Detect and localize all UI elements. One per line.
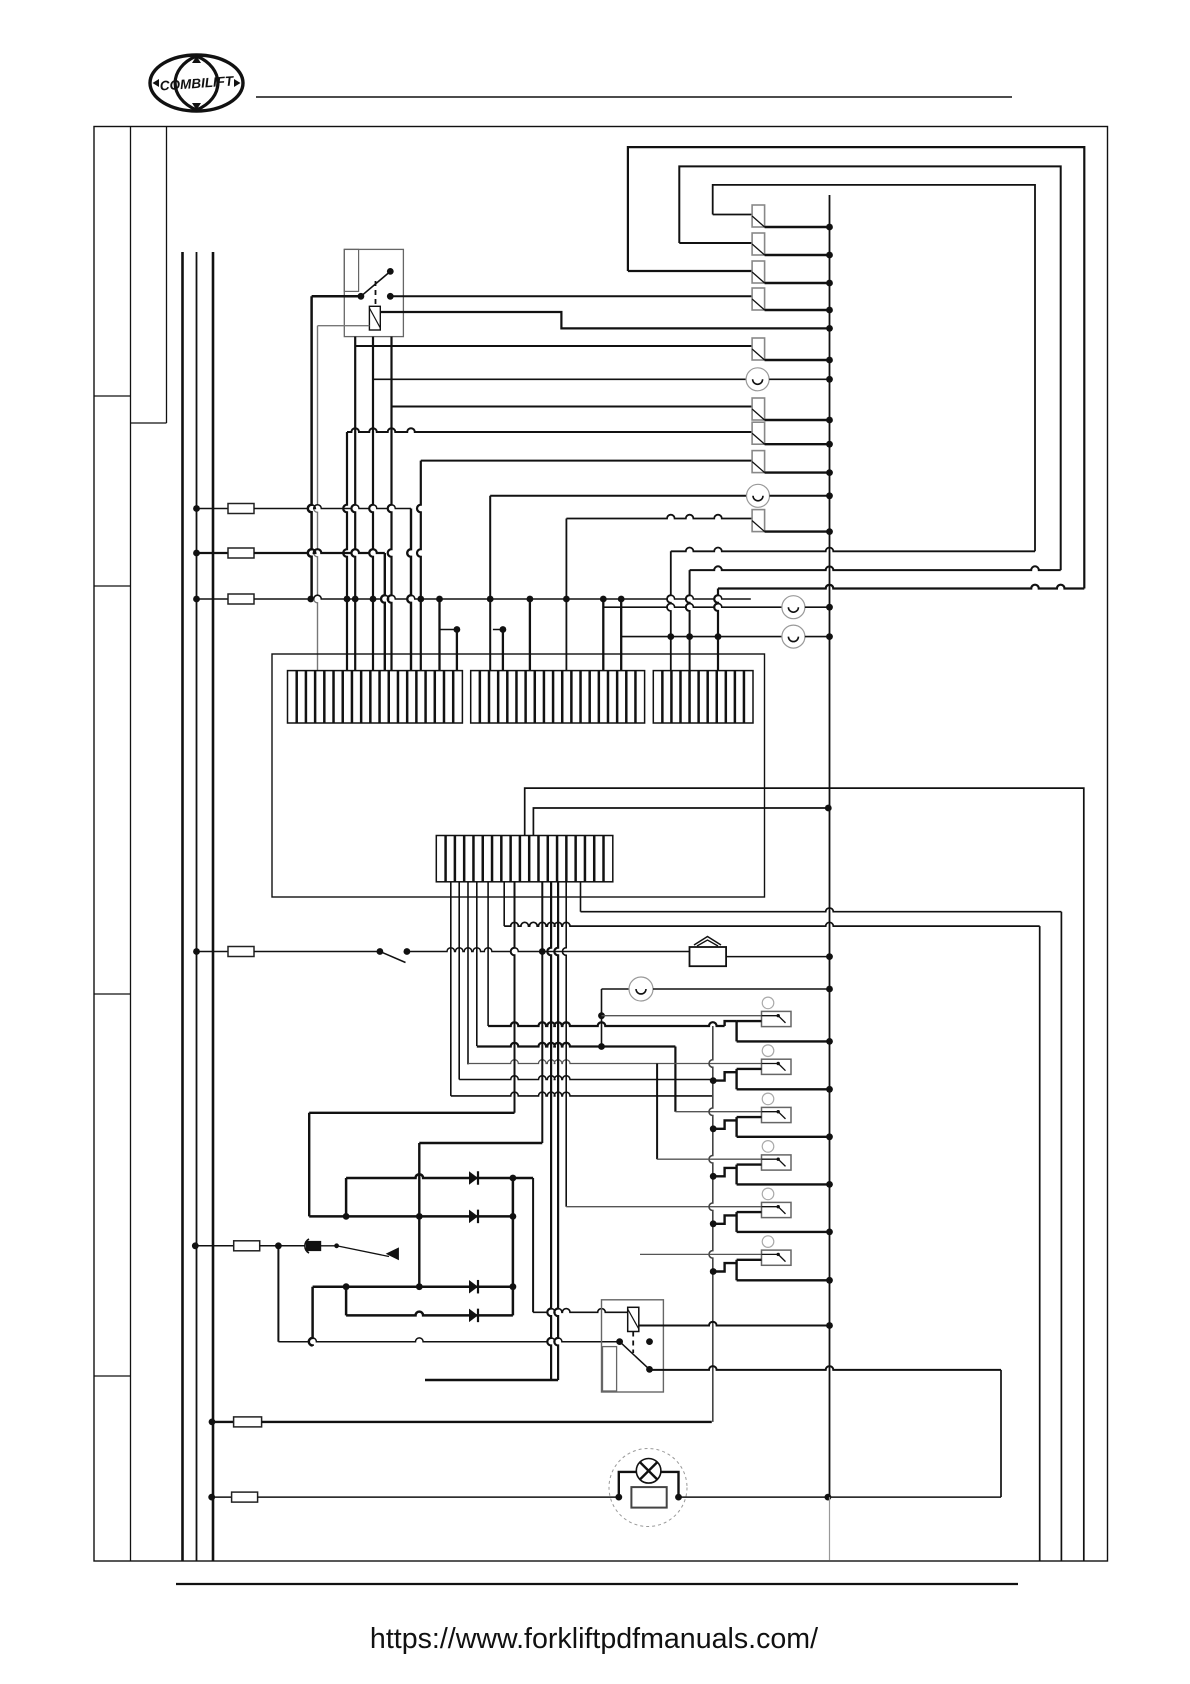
Combilift logo [150, 55, 243, 111]
breaker b2 input [679, 242, 752, 244]
wire row3 tooth feed x439.5 [436, 596, 443, 603]
loop A drop to connector [714, 589, 718, 671]
relay K1 box [344, 249, 403, 336]
lamp L4 [782, 625, 805, 648]
frame title column vertical [166, 127, 168, 424]
relay K1 coil [369, 306, 380, 330]
wire F1 drop (x411) [407, 509, 411, 671]
controller box [272, 654, 765, 897]
breaker b9 input [566, 515, 752, 519]
node L4 x689.6 [686, 633, 693, 640]
relay K2 NC dot [646, 1338, 653, 1345]
wire F5 drop (x278.4) [277, 1246, 279, 1342]
node drop2 row3 [370, 596, 377, 603]
node L2 bus [826, 492, 833, 499]
wire X4 out to y926 row [503, 882, 505, 926]
wire x312.6 drop [309, 1287, 313, 1346]
diode row 1 [346, 1174, 533, 1178]
node b7 row3 [344, 596, 351, 603]
wire b7 drop (x347) [343, 432, 347, 671]
wire stair y1064 (RL2 thin) [468, 1060, 762, 1064]
frame inner vertical [130, 127, 132, 1562]
breaker b1 [752, 205, 765, 227]
bus wire B2 (x196.5) [196, 252, 198, 1561]
wire K1 drop2 (x373) [369, 337, 373, 671]
lamp X symbol [636, 1459, 661, 1484]
diode D3 [469, 1280, 478, 1294]
lamp L4 input [620, 599, 622, 637]
wire stair y1046 [477, 1043, 676, 1047]
wire stair y1079 (RL2 bus join) [459, 1076, 713, 1080]
wire L4 to bus [805, 636, 830, 638]
relay unit RL2 [710, 1045, 833, 1093]
breaker b3 [752, 261, 765, 283]
node stair x601.5 [598, 1043, 605, 1050]
breaker b7 [752, 422, 765, 444]
node L4 x718 [715, 633, 722, 640]
wire drop x419.3 [418, 1143, 420, 1287]
switch S1 blade [380, 952, 406, 963]
loop B return [690, 566, 1061, 570]
row3 link b [493, 629, 503, 631]
relay K2 NO dot [646, 1366, 653, 1373]
relay unit RL3 [710, 1093, 833, 1140]
lever switch blade [337, 1246, 389, 1257]
wire X4 out R1 (x514.5) [511, 882, 515, 1113]
breaker b8 [752, 451, 765, 473]
lamp branch [619, 1472, 637, 1497]
loop B drop to connector [686, 570, 690, 671]
relay K2 common dot [616, 1338, 623, 1345]
relay K1 inner rect [344, 249, 358, 291]
connector clip [305, 1239, 309, 1253]
wire b9 drop (x566.4) [565, 519, 567, 671]
wire K1 NC contact to breaker b4 [390, 295, 752, 297]
wire x1039.7 down [1039, 926, 1041, 1561]
wire X4 feed 1 [525, 788, 1084, 1561]
wire RL5 thin lead [566, 1206, 761, 1208]
loop B wire [679, 166, 1060, 570]
relay unit RL6 [710, 1236, 833, 1284]
wire X4 out L3 vertical [467, 882, 469, 1065]
wire RL1 thick zigzag [725, 1021, 737, 1026]
wire relay K2 coil input [533, 1309, 628, 1313]
wire drop1 to breaker b5 [355, 345, 752, 347]
left strip divider 4 [94, 1375, 131, 1377]
diode D1 [469, 1171, 478, 1185]
wire row y911 [581, 908, 1062, 912]
fuse F1 row [193, 505, 200, 512]
node K2 coil bus [826, 1322, 833, 1329]
breaker b6 [752, 398, 765, 420]
breaker b3 input [628, 270, 752, 272]
node L4 x670.8 [667, 633, 674, 640]
bus wire B1 (x182.5) [181, 252, 184, 1561]
relay K2 coil [628, 1307, 639, 1331]
wire RL3 thin lead [675, 1111, 761, 1113]
wire L3 to bus [805, 606, 830, 608]
breaker b5 [752, 338, 765, 360]
connector X1 (comb) [288, 671, 463, 723]
page frame [94, 127, 1108, 1562]
lamp L2 input [490, 495, 746, 497]
wire K2 NO out [650, 1366, 1002, 1370]
left strip divider 1 [94, 395, 131, 397]
resistor R1 [631, 1487, 666, 1508]
fuse F3 row [193, 596, 200, 603]
fuel sender G1 [690, 947, 727, 966]
svg-text:https://www.forkliftpdfmanuals: https://www.forkliftpdfmanuals.com/ [370, 1623, 818, 1655]
wire lamp L5 row [601, 989, 603, 1047]
lamp L1 [746, 368, 769, 391]
wire row3 tooth feed x529.9 [529, 599, 531, 671]
node drop1 row3 [352, 596, 359, 603]
connector X4 (comb) [436, 836, 613, 882]
diode row 3 [313, 1285, 513, 1288]
wire K2 coil out [639, 1322, 830, 1326]
relay K2 inner rect [603, 1347, 617, 1391]
breaker b4 [752, 288, 765, 310]
wire K1 coil-left out [318, 325, 370, 327]
fuse F7 row [208, 1494, 215, 1501]
relay unit RL5 [710, 1188, 833, 1235]
wire X4 out R2 (x542.3) [541, 882, 543, 1143]
diode row 2 [309, 1215, 513, 1218]
node F7 bus [825, 1494, 832, 1501]
lamp module dotted outline [609, 1449, 687, 1527]
wire sender to bus [726, 956, 829, 958]
wire S1 to sender [407, 948, 690, 952]
left strip divider 3 [94, 993, 131, 995]
node row3 x529.9 [527, 596, 534, 603]
wire F2 drop (x384.8) [381, 553, 385, 671]
node sender bus [826, 953, 833, 960]
left strip divider 2 [94, 585, 131, 587]
right distribution bus [829, 195, 831, 1497]
frame title column bottom tick [131, 422, 167, 424]
lamp L2 [747, 484, 770, 507]
wire bottom gray row [278, 1338, 619, 1342]
RL6 thin lead [640, 1253, 762, 1255]
loop C return [671, 548, 1035, 552]
relay unit RL4 [710, 1141, 833, 1188]
connector X3 (comb) [653, 671, 753, 723]
wire L1 to bus [769, 378, 829, 380]
relay unit RL1 [737, 997, 833, 1045]
wire X4 out R5 (x566.2) [562, 882, 566, 1207]
breaker b9 [752, 510, 765, 532]
relay K1 actuator dashed link [375, 281, 377, 304]
wire K1 drop3 (x391.5) [388, 337, 392, 671]
node L3 bus [826, 604, 833, 611]
wire stair y1096 [451, 1092, 713, 1096]
wire x1061.4 down [1060, 912, 1062, 1561]
footer rule [176, 1583, 1018, 1585]
wire stair to RL3 thin [674, 1047, 676, 1112]
node row3 x311.6 [307, 596, 314, 603]
wire L2 drop (x490.2) [489, 496, 491, 671]
unit bus left [709, 1026, 713, 1422]
wire bus tail [829, 1497, 831, 1560]
breaker b2 [752, 233, 765, 255]
loop A wire [628, 147, 1084, 588]
wire link y1380 [425, 1379, 558, 1381]
wire row3 tooth feed x621.2 [620, 599, 622, 671]
RL1 thin lead [602, 1015, 762, 1017]
wire clip to node [321, 1245, 337, 1247]
diode row 4 [346, 1312, 513, 1316]
relay K2 box [602, 1300, 664, 1392]
wire X4 out R4 (x558.1) [554, 882, 558, 1380]
node plain row at bus [826, 325, 833, 332]
node b8 row3 [417, 596, 424, 603]
wire x346 link top pair [345, 1178, 348, 1216]
relay K1 contact NO dot [387, 268, 394, 275]
wire X4 out L1 vertical [450, 882, 452, 1096]
wire X4 out to y911 row [580, 882, 582, 912]
wire K1 common to left [312, 295, 361, 298]
RL4 thin lead [657, 1158, 761, 1160]
wire drop3 to breaker b6 [392, 406, 753, 408]
wire stair y1026 (to relay unit RL1 thick) [488, 1022, 724, 1026]
header rule [256, 96, 1012, 98]
wire b8 drop (x420.8) [417, 461, 421, 671]
wire thick link y1143 [419, 1142, 542, 1144]
loop A return [718, 585, 1084, 589]
wire thick link y1112.8 [309, 1112, 514, 1114]
lever arrowhead [386, 1247, 399, 1260]
switch S1 right dot [404, 948, 411, 955]
relay K2 blade [620, 1342, 650, 1370]
wire lamp to bus [679, 1496, 1002, 1498]
wire cascade x657.1 [656, 1064, 658, 1160]
fuse F2 row [193, 550, 200, 557]
wire X4 out R3 (x551.1) [547, 882, 551, 1380]
wire X4 out L5 vertical [487, 882, 489, 1026]
relay K1 contact common dot [358, 293, 365, 300]
wire x1001 down [1000, 1370, 1002, 1497]
breaker b8 input [421, 460, 752, 462]
wire K1 common drop (x311.6) [308, 296, 312, 599]
fuse F4 row [193, 948, 200, 955]
lamp L3 input [603, 603, 782, 607]
node row3 x603.3 [600, 596, 607, 603]
wire K1 coil to plain bus row [380, 312, 829, 328]
lamp L3 [782, 596, 805, 619]
lamp L5 [629, 977, 653, 1001]
wire drop2 to lamp L1 [373, 378, 746, 380]
wire K1 drop1 (x355.2) [351, 337, 355, 671]
loop C wire [713, 185, 1035, 551]
wire row y926 [504, 922, 1039, 926]
node L4 bus [826, 633, 833, 640]
node S1 row x542.3 [540, 949, 546, 955]
row3 link a [440, 629, 457, 631]
lamp module right node [675, 1494, 682, 1501]
wire row3 tooth feed x603.3 [602, 599, 604, 671]
fuse F5 row [192, 1242, 199, 1249]
diode D4 [469, 1309, 478, 1323]
node L1 bus [826, 376, 833, 383]
switch S1 left dot [377, 948, 384, 955]
wire X4 feed 2 [533, 808, 828, 836]
connector X2 (comb) [471, 671, 645, 723]
wire L5 to bus [653, 988, 830, 990]
relay K1 contact NC dot [387, 293, 394, 300]
diode D2 [469, 1210, 478, 1224]
fuse F6 row [209, 1419, 216, 1426]
lamp module left node [615, 1494, 622, 1501]
relay K2 dashed actuator [632, 1332, 634, 1354]
wire x346 link bottom pair [345, 1287, 348, 1316]
wire L2 to bus [770, 495, 830, 497]
breaker b1 input [713, 214, 752, 216]
wire K1 coil-left drop (x317.5) [314, 326, 318, 671]
wire drop x309.2 to diode row [308, 1113, 310, 1217]
wire X4 out L2 vertical [458, 882, 460, 1080]
wire x512.9 diode bus [512, 1178, 515, 1315]
node row3 x621.2 [618, 596, 625, 603]
relay K1 switch blade [361, 271, 390, 296]
node L5 bus [826, 986, 833, 993]
breaker b7 input [347, 428, 752, 432]
wire x533.1 to relay coil [532, 1178, 534, 1312]
bus wire B3 (x213) [212, 252, 215, 1561]
wire X4 out L4 vertical [476, 882, 478, 1046]
loop C drop to connector [667, 551, 671, 670]
